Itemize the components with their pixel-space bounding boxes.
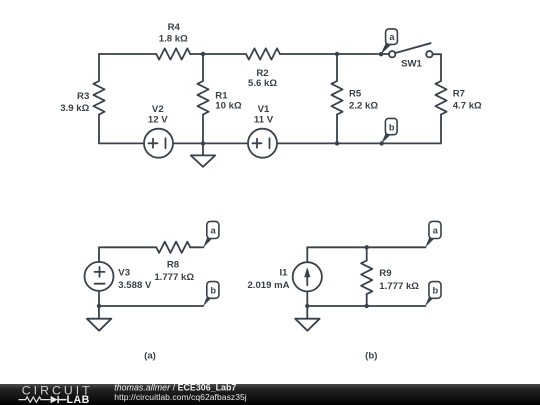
svg-text:1.8 kΩ: 1.8 kΩ (159, 34, 188, 45)
svg-text:I1: I1 (279, 268, 288, 279)
svg-text:b: b (432, 286, 438, 296)
flag b tail top (381, 133, 391, 144)
flag b box top (385, 118, 397, 134)
svg-text:1.777 kΩ: 1.777 kΩ (154, 272, 194, 283)
resistor R3 (93, 81, 104, 115)
node top R4-R1 junction (201, 52, 205, 56)
wire left rail lower (98, 115, 100, 144)
svg-text:http://circuitlab.com/cq62afba: http://circuitlab.com/cq62afbasz35j (114, 392, 247, 402)
wire R7 bottom (440, 115, 442, 144)
switch SW1 pole contact (389, 51, 395, 57)
svg-text:R9: R9 (379, 268, 391, 279)
wire bottom right segment (278, 142, 441, 144)
wire throw to right rail (433, 54, 441, 81)
node a terminal top (379, 52, 383, 56)
wire I1 top lead (306, 247, 308, 262)
svg-text:R8: R8 (167, 260, 180, 271)
svg-text:11 V: 11 V (254, 114, 274, 125)
voltage source V3 (85, 262, 114, 291)
wire R2 to switch pole (280, 53, 389, 55)
resistor R8 (156, 242, 190, 253)
wire I1 bottom lead (306, 291, 308, 306)
svg-text:12 V: 12 V (148, 114, 168, 125)
wire R4 to R2 (190, 53, 246, 55)
svg-text:V3: V3 (118, 268, 130, 279)
wire bottom rail circuit b (307, 305, 425, 307)
I1 arrow shaft (306, 270, 308, 285)
V3 plus sign (95, 267, 105, 277)
node bottom R1-ground junction (201, 141, 205, 145)
svg-text:1.777 kΩ: 1.777 kΩ (379, 281, 419, 292)
wire R5 bottom lead (336, 115, 338, 144)
svg-text:a: a (211, 226, 217, 236)
wire R1 top lead (202, 54, 204, 81)
logo diode (51, 396, 58, 403)
flag a box top (386, 29, 398, 45)
wire V3 top lead (99, 247, 156, 262)
wire R9 bottom lead (366, 294, 368, 306)
flag a tail circuit b (425, 237, 434, 248)
logo resistor squiggle (19, 397, 51, 402)
V1 plus sign (253, 139, 262, 148)
svg-text:R5: R5 (349, 89, 362, 100)
flag b tail circuit a (203, 296, 212, 307)
ground top circuit (191, 143, 216, 166)
svg-text:R3: R3 (77, 91, 89, 102)
svg-text:R4: R4 (168, 22, 181, 33)
svg-text:2.2 kΩ: 2.2 kΩ (349, 101, 378, 112)
flag b box circuit a (207, 282, 219, 299)
resistor R5 (331, 81, 342, 115)
flag b tail circuit b (425, 296, 434, 307)
svg-text:V1: V1 (258, 104, 270, 115)
resistor R1 (197, 81, 208, 115)
resistor R4 (156, 48, 190, 59)
svg-text:3.588 V: 3.588 V (118, 280, 152, 291)
svg-text:10 kΩ: 10 kΩ (215, 101, 242, 112)
wire V3 bottom lead (98, 291, 100, 306)
svg-text:5.6 kΩ: 5.6 kΩ (248, 78, 277, 89)
node R9 top junction (365, 245, 369, 249)
switch SW1 blade (395, 43, 430, 53)
svg-text:4.7 kΩ: 4.7 kΩ (453, 101, 482, 112)
wire left rail upper (98, 54, 100, 81)
svg-text:thomas.allmer / ECE306_Lab7: thomas.allmer / ECE306_Lab7 (114, 382, 236, 392)
wire R8 to flag a (190, 246, 203, 248)
V1 minus bar (269, 138, 271, 148)
svg-text:a: a (389, 32, 395, 42)
V2 minus bar (165, 138, 167, 148)
wire top rail circuit b (307, 246, 425, 248)
footer bar (0, 384, 540, 405)
resistor R7 (435, 81, 446, 115)
switch SW1 throw contact (426, 51, 432, 57)
node V3 ground junction (97, 304, 101, 308)
flag a tail circuit a (203, 237, 212, 248)
voltage source V1 (248, 129, 277, 158)
svg-text:b: b (389, 122, 395, 132)
svg-text:SW1: SW1 (401, 58, 422, 69)
wire bottom rail circuit a (99, 305, 203, 307)
svg-text:2.019 mA: 2.019 mA (247, 280, 289, 291)
svg-text:R7: R7 (453, 89, 465, 100)
node top R2-R5 junction (335, 52, 339, 56)
svg-text:a: a (433, 226, 439, 236)
wire V2 to left rail (99, 142, 143, 144)
current source I1 (293, 262, 322, 291)
resistor R2 (246, 48, 280, 59)
flag a box circuit a (207, 221, 219, 238)
ground circuit b (295, 306, 320, 331)
voltage source V2 (144, 129, 173, 158)
node b terminal top circuit (380, 141, 384, 145)
svg-text:(a): (a) (144, 351, 156, 362)
wire R5 top lead (336, 54, 338, 81)
node R9 bottom junction (365, 304, 369, 308)
wire top-left horizontal (99, 53, 156, 55)
V2 plus sign (149, 139, 158, 148)
node I1 bottom junction (305, 304, 309, 308)
svg-text:3.9 kΩ: 3.9 kΩ (60, 103, 89, 114)
flag a box circuit b (429, 221, 441, 238)
wire R1 bottom lead (202, 115, 204, 144)
logo diode bar (58, 396, 66, 403)
svg-text:LAB: LAB (67, 394, 90, 405)
I1 arrowhead (304, 267, 310, 277)
wire V1 to V2 (174, 142, 248, 144)
svg-text:b: b (210, 286, 216, 296)
flag b box circuit b (429, 282, 441, 299)
svg-text:(b): (b) (365, 351, 377, 362)
ground circuit a (87, 306, 112, 331)
wire R9 top lead (366, 247, 368, 260)
V3 minus bar (95, 283, 105, 285)
resistor R9 (361, 261, 372, 295)
node bottom R5 junction (335, 141, 339, 145)
flag a tail top (381, 43, 391, 55)
svg-text:V2: V2 (152, 104, 164, 115)
